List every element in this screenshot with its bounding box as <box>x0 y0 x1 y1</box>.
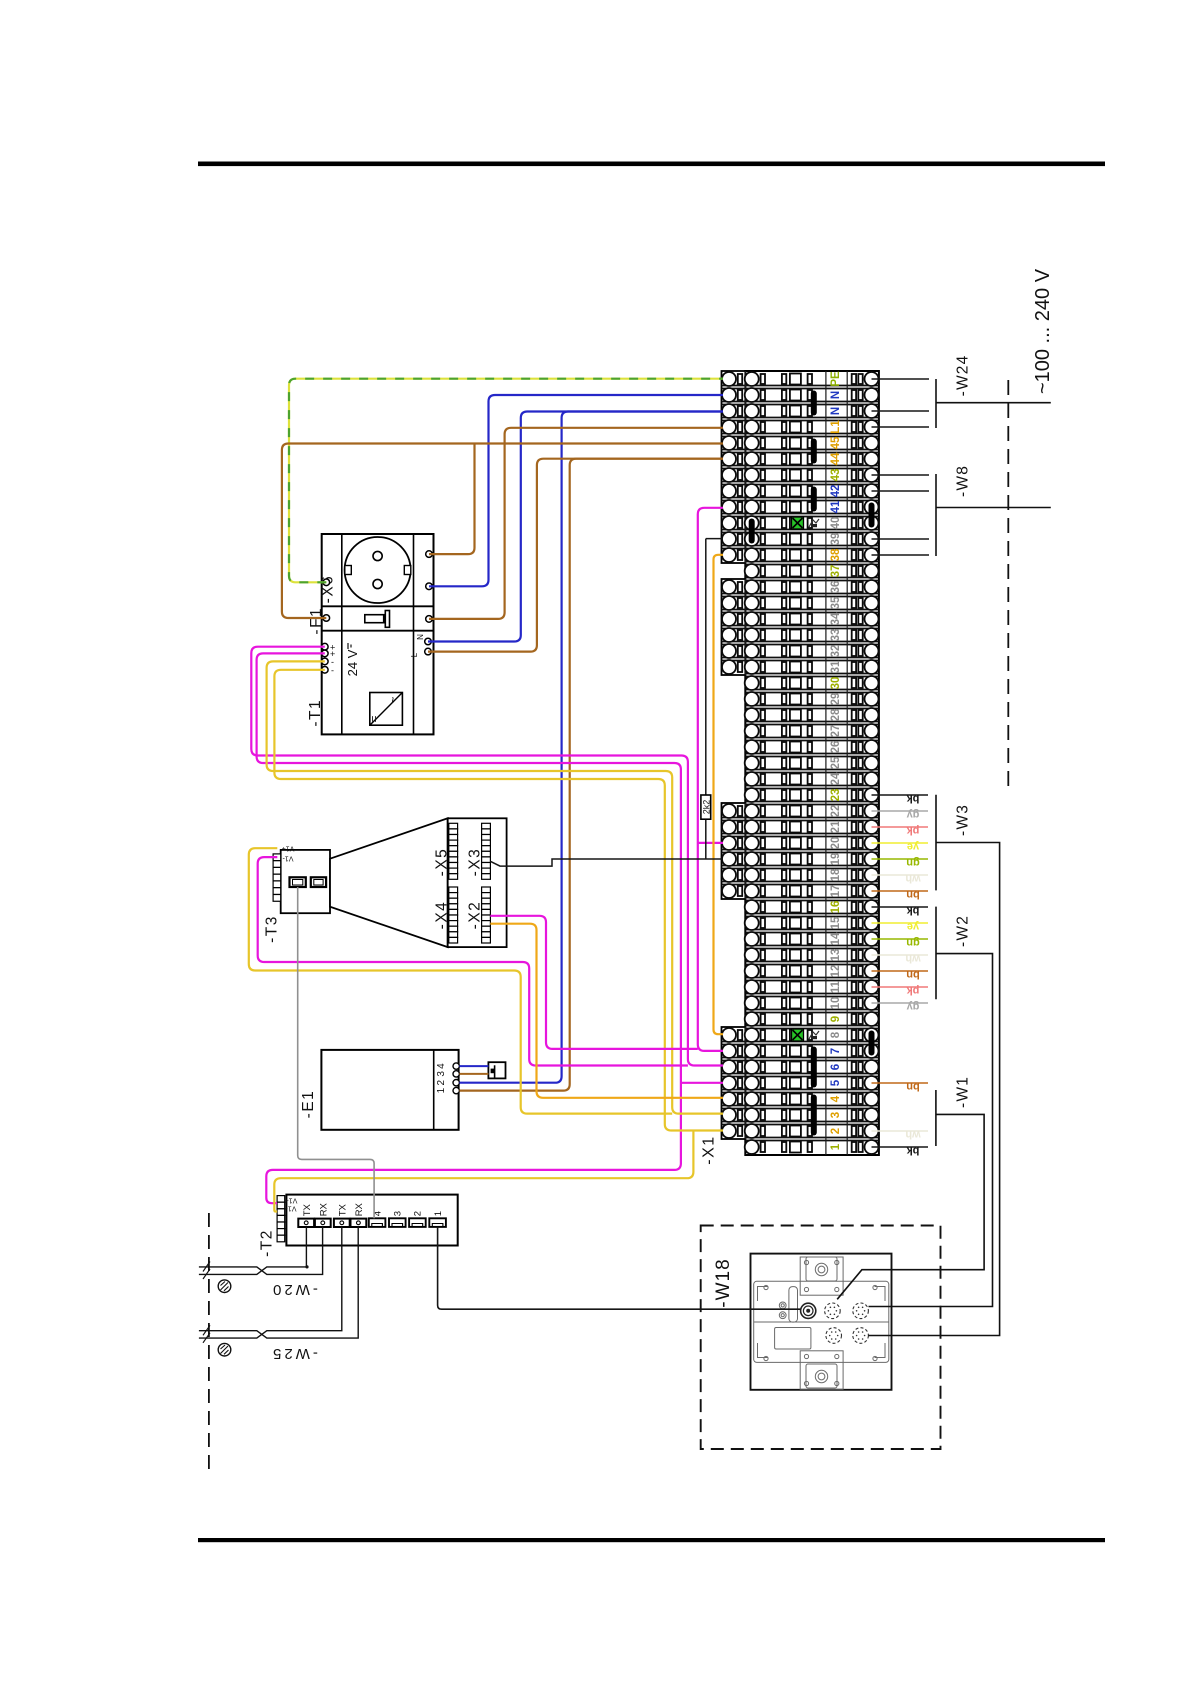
crossing ticks W25 <box>203 1325 210 1343</box>
wire blue T1 N to X1:N <box>428 412 723 642</box>
svg-text:bn: bn <box>906 1081 920 1093</box>
svg-text:33: 33 <box>830 629 842 642</box>
svg-text:23: 23 <box>830 789 842 802</box>
-W18 central connector <box>801 1303 816 1318</box>
svg-text:6: 6 <box>830 1064 842 1070</box>
-T2 port 3 <box>389 1218 406 1227</box>
terminal strip -X4 <box>449 887 458 943</box>
svg-text:L: L <box>410 652 419 657</box>
cable -W24 bracket <box>935 379 937 428</box>
cable -W20 pair with twist <box>199 1227 323 1275</box>
-T3 left terminal strip <box>273 854 281 901</box>
-X1 PE marker row 40 <box>792 517 804 529</box>
wire magenta T3 V1- to X1:6 <box>258 857 688 1065</box>
fuse -F1 symbol <box>365 615 384 623</box>
svg-text:32: 32 <box>830 645 842 658</box>
-T3 trapezoid <box>330 818 448 947</box>
wire yellow T3 V1+ to X1:3 <box>249 848 672 1113</box>
-T2 port TX <box>298 1219 314 1227</box>
wire magenta X2 to X1:7 <box>490 916 698 1049</box>
svg-text:bn: bn <box>906 889 920 901</box>
svg-text:bk: bk <box>906 905 920 917</box>
wire brown T1 L to X1:44 <box>428 459 723 652</box>
-T2 port TX <box>334 1219 350 1227</box>
svg-text:18: 18 <box>830 868 842 881</box>
-T3 right box <box>448 818 507 947</box>
-X1 terminal cells <box>722 372 879 1154</box>
svg-text:N: N <box>416 634 425 640</box>
svg-text:3: 3 <box>830 1112 842 1118</box>
-T2 port 2 <box>409 1218 426 1227</box>
svg-text:-E1: -E1 <box>300 1090 317 1119</box>
-W18 device details <box>754 1257 889 1389</box>
-X1 row separators <box>722 386 879 1141</box>
svg-text:-W18: -W18 <box>713 1258 734 1307</box>
cable -W8 bracket <box>935 474 937 556</box>
gateway -T2 box <box>286 1195 457 1246</box>
svg-text:44: 44 <box>830 452 842 465</box>
-X1 extra left block rows 38-49 <box>722 371 746 563</box>
cable -W2 bracket and run to -W18 <box>869 907 993 1307</box>
-X1 extra left block rows 2-8 <box>722 1027 746 1139</box>
svg-text:35: 35 <box>830 596 842 609</box>
wire magenta T1+ to X1:5 and T2 <box>257 653 681 1203</box>
T1 pin polarity marks <box>330 643 335 676</box>
junction box -W18 dashed outline <box>701 1226 941 1450</box>
svg-text:-W25: -W25 <box>270 1345 318 1362</box>
-X1 PE marker row 8 <box>792 1029 804 1041</box>
svg-text:29: 29 <box>830 693 842 706</box>
thermal switch box <box>488 1062 505 1078</box>
svg-text:43: 43 <box>830 469 842 482</box>
svg-text:4: 4 <box>830 1095 842 1102</box>
wire brown E1 pin3 to switch <box>459 1073 488 1075</box>
svg-text:-X3: -X3 <box>467 848 484 877</box>
svg-text:24 V: 24 V <box>345 649 360 676</box>
-T2 left terminal strip <box>277 1196 285 1242</box>
svg-text:=: = <box>367 715 381 722</box>
-W18 round connectors <box>825 1303 841 1319</box>
wire magenta T1+ to X1:6 <box>251 647 723 1066</box>
svg-text:11: 11 <box>830 980 842 993</box>
-T2 port 1 <box>429 1218 446 1227</box>
svg-text:bk: bk <box>906 793 920 805</box>
svg-text:3: 3 <box>436 1071 447 1077</box>
svg-text:V1-: V1- <box>282 855 294 862</box>
-W18 device outer box <box>751 1254 892 1390</box>
svg-text:-W24: -W24 <box>955 355 972 397</box>
wire blue E1 pin2 to X1:N <box>459 412 723 1083</box>
svg-text:31: 31 <box>830 660 842 673</box>
svg-text:V1-: V1- <box>285 1205 297 1212</box>
-T3 jack connectors <box>290 877 306 887</box>
svg-text:N: N <box>830 407 842 415</box>
svg-text:wh: wh <box>905 873 922 885</box>
svg-text:4: 4 <box>436 1063 447 1069</box>
svg-text:28: 28 <box>830 708 842 721</box>
svg-text:38: 38 <box>830 548 842 561</box>
cable -W24 leaders (PE,N,L1) <box>872 378 930 380</box>
svg-text:26: 26 <box>830 741 842 754</box>
svg-text:pk: pk <box>906 985 920 997</box>
svg-text:-T3: -T3 <box>264 915 281 943</box>
svg-text:pk: pk <box>906 825 920 837</box>
svg-text:19: 19 <box>830 853 842 866</box>
svg-text:gn: gn <box>906 937 920 949</box>
cable -W3 colored core leaders <box>872 794 929 796</box>
cable -W1 colored core leaders <box>872 1082 929 1084</box>
cable -W2 colored core leaders <box>872 906 929 908</box>
svg-text:30: 30 <box>830 677 842 690</box>
svg-text:-W8: -W8 <box>955 465 972 497</box>
svg-text:-X5: -X5 <box>434 848 451 877</box>
svg-text:-T2: -T2 <box>259 1229 276 1257</box>
svg-text:17: 17 <box>830 885 842 898</box>
svg-text:gn: gn <box>906 857 920 869</box>
cable -W3 bracket and run to -W18 <box>869 795 1000 1336</box>
svg-text:1: 1 <box>830 1143 842 1150</box>
svg-text:14: 14 <box>830 932 842 945</box>
wire brown F1-left / X6 L to X1:45 <box>282 444 723 619</box>
wire PE green-yellow X6 to X1:PE <box>289 379 723 583</box>
socket/fuse/psu block outline <box>322 534 434 734</box>
terminal strip -X5 <box>449 823 458 879</box>
wire blue E1 pin4 to switch <box>459 1065 488 1067</box>
-T2 port 4 <box>369 1218 386 1227</box>
svg-text:RX: RX <box>318 1202 329 1216</box>
svg-text:gy: gy <box>906 809 920 821</box>
page frame top rule <box>198 162 1105 167</box>
-X1 extra left block rows 17-22 <box>722 803 746 899</box>
svg-text:1: 1 <box>433 1211 444 1216</box>
svg-text:21: 21 <box>830 820 842 833</box>
svg-text:9: 9 <box>830 1016 842 1022</box>
-E1 pins 1-4 <box>453 1063 459 1094</box>
svg-text:27: 27 <box>830 725 842 738</box>
svg-text:7: 7 <box>830 1048 842 1054</box>
wire brown E1 pin1 to X1:44 <box>459 459 723 1091</box>
svg-text:TX: TX <box>302 1203 313 1216</box>
svg-text:N: N <box>830 391 842 399</box>
crossing ticks W20 <box>203 1262 210 1280</box>
svg-text:39: 39 <box>830 533 842 546</box>
mains boundary dashed line <box>1007 380 1009 790</box>
svg-text:wh: wh <box>905 1129 922 1141</box>
wire yellow T1- to X1:2 and T2 <box>274 670 723 1131</box>
block terminal pins <box>322 551 433 673</box>
svg-text:-W20: -W20 <box>270 1281 318 1298</box>
svg-text:~100 ... 240 V: ~100 ... 240 V <box>1032 268 1054 394</box>
svg-text:ye: ye <box>907 921 919 933</box>
svg-text:45: 45 <box>830 436 842 449</box>
terminal strip -X2 <box>482 887 491 943</box>
gateway -T3 left box <box>281 850 330 913</box>
resistor 2k2 leads <box>705 539 707 859</box>
svg-text:V1+: V1+ <box>282 845 295 852</box>
site boundary dashed line left <box>208 1213 210 1474</box>
svg-text:-: - <box>331 665 334 675</box>
svg-text:-X2: -X2 <box>467 901 484 930</box>
cable -W1 bracket and run to -W18 <box>837 1090 984 1299</box>
svg-text:1: 1 <box>436 1087 447 1093</box>
svg-text:L1: L1 <box>830 420 842 434</box>
svg-text:42: 42 <box>830 485 842 498</box>
svg-text:-W2: -W2 <box>955 915 972 947</box>
-X1 vertical grid lines <box>745 371 847 1155</box>
shield symbol W20 <box>218 1280 231 1293</box>
socket -X6 schuko symbol <box>345 537 411 603</box>
svg-text:24: 24 <box>830 772 842 785</box>
svg-text:15: 15 <box>830 916 842 929</box>
svg-text:bn: bn <box>906 969 920 981</box>
wire blue X6 N to X1:N <box>429 395 723 586</box>
svg-text:gy: gy <box>906 1001 920 1013</box>
svg-text:10: 10 <box>830 997 842 1010</box>
svg-text:PE: PE <box>830 371 842 387</box>
svg-text:2k2: 2k2 <box>702 800 712 815</box>
svg-text:2: 2 <box>413 1211 424 1216</box>
terminal strip -X1 body <box>745 371 879 1155</box>
wire brown F1 to X1:L1 <box>429 428 723 619</box>
-X1 jumper bridges <box>749 391 875 1136</box>
controller -E1 box <box>321 1050 458 1130</box>
svg-text:~: ~ <box>386 696 400 703</box>
svg-text:V1+: V1+ <box>285 1197 298 1204</box>
wire orange X2 to X1:4 <box>490 924 723 1098</box>
wire yellow T1- to X1:3 <box>267 661 723 1113</box>
svg-text:13: 13 <box>830 949 842 962</box>
wire black X3 to X1:19 <box>490 859 723 866</box>
svg-text:-X4: -X4 <box>434 901 451 930</box>
svg-text:-T1: -T1 <box>307 699 324 727</box>
svg-text:2: 2 <box>830 1128 842 1134</box>
psu -T1 rectifier symbol <box>370 693 403 726</box>
-T2 port RX <box>351 1219 367 1227</box>
svg-text:bk: bk <box>906 1145 920 1157</box>
svg-text:wh: wh <box>905 953 922 965</box>
wire grey T3 jack to T2 port4 <box>298 887 374 1218</box>
svg-text:16: 16 <box>830 901 842 914</box>
wire black T2 port1 to W18 <box>438 1227 801 1309</box>
svg-text:25: 25 <box>830 756 842 769</box>
svg-text:41: 41 <box>830 500 842 513</box>
shield symbol W25 <box>218 1343 231 1356</box>
svg-text:-W1: -W1 <box>955 1076 972 1108</box>
svg-text:3: 3 <box>393 1211 404 1216</box>
wire magenta bus X1:41 - X1:20 - X1:7 <box>698 508 723 1051</box>
cable -W8 leaders (43,42,39,38) <box>872 474 930 476</box>
svg-text:-X1: -X1 <box>701 1135 718 1164</box>
svg-text:20: 20 <box>830 837 842 850</box>
svg-text:40: 40 <box>830 517 842 530</box>
svg-text:12: 12 <box>830 965 842 978</box>
svg-text:2: 2 <box>436 1079 447 1085</box>
svg-text:ye: ye <box>907 841 919 853</box>
-X1 extra left block rows 31-36 <box>722 579 746 675</box>
page frame bottom rule <box>198 1538 1105 1542</box>
svg-text:-W3: -W3 <box>955 804 972 836</box>
svg-text:-F1: -F1 <box>308 607 325 635</box>
svg-text:5: 5 <box>830 1079 842 1086</box>
svg-text:TX: TX <box>337 1203 348 1216</box>
svg-text:34: 34 <box>830 612 842 625</box>
wire black X1:39 stub <box>706 538 723 540</box>
svg-text:22: 22 <box>830 805 842 818</box>
terminal strip -X3 <box>482 823 491 879</box>
svg-text:8: 8 <box>830 1031 842 1038</box>
cable -W25 pair with twist <box>199 1227 358 1339</box>
resistor 2k2 <box>701 795 711 819</box>
svg-text:RX: RX <box>354 1202 365 1216</box>
svg-text:36: 36 <box>830 581 842 594</box>
svg-text:37: 37 <box>830 565 842 578</box>
wire yellow X1:38 to X1:8 <box>714 555 724 1034</box>
-T2 port RX <box>315 1219 331 1227</box>
